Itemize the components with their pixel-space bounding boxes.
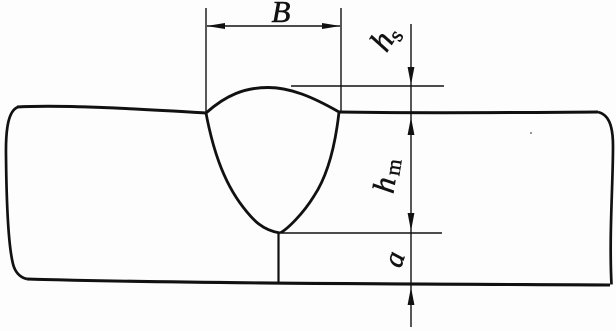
plate top surface left segment [17, 106, 207, 113]
plate left break edge [6, 107, 27, 279]
arrowhead B right [322, 23, 341, 29]
extension line B right [340, 8, 342, 112]
arrowhead a up [408, 287, 415, 305]
arrowhead hm up [408, 117, 415, 135]
joint centerline below root [277, 233, 279, 284]
speckle [530, 132, 532, 134]
arrowhead hm down [408, 213, 415, 231]
weld bead crown [206, 88, 339, 114]
vertical dimension line [410, 24, 412, 327]
weld fusion boundary right [280, 112, 339, 233]
svg-text:B: B [272, 0, 291, 29]
extension line at bead crest [291, 85, 444, 87]
arrowhead hs down [408, 67, 415, 85]
dimension line B [207, 25, 340, 27]
arrowhead B left [207, 23, 226, 29]
plate top surface right segment [339, 111, 598, 115]
extension line at weld root [282, 232, 442, 234]
plate bottom surface [27, 279, 610, 285]
plate right break edge [598, 112, 613, 285]
extension line B left [205, 8, 207, 113]
weld fusion boundary left [206, 113, 280, 233]
